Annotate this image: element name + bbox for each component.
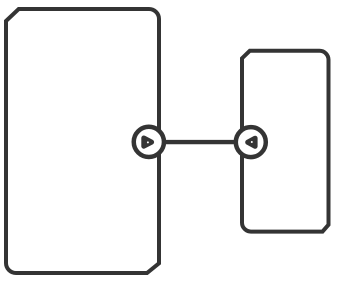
left port node (134, 127, 164, 157)
left play arrow (144, 138, 152, 146)
connector wire (149, 140, 251, 144)
right port node (236, 127, 266, 157)
right frame (242, 51, 329, 232)
right play arrow (248, 138, 255, 146)
left frame (6, 9, 159, 273)
right play arrow hole (251, 141, 253, 143)
left play arrow hole (147, 141, 149, 143)
